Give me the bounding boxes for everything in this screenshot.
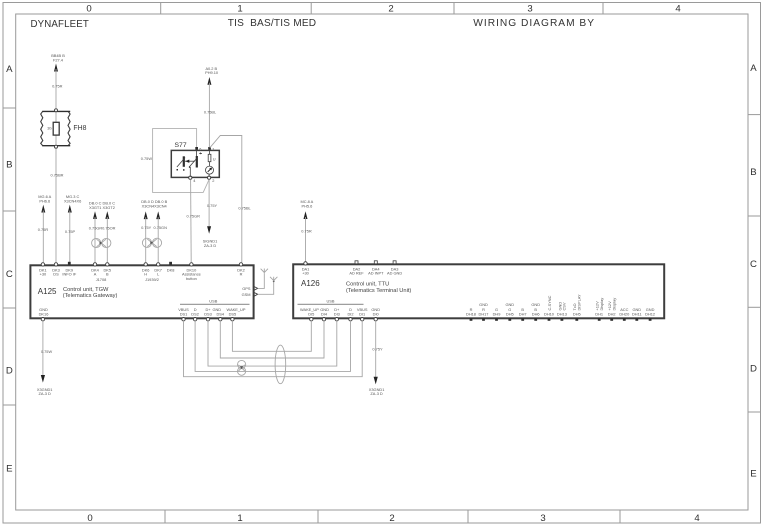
wire 0.75R feed to fuse [55,69,57,109]
svg-text:0: 0 [87,513,92,524]
pin DH7 A126 bottom [519,307,527,321]
svg-text:DH17: DH17 [479,312,489,317]
wire 0.75BL to S77 pin1 [208,83,210,148]
svg-text:2: 2 [389,513,394,524]
svg-text:X3GT1 X3GT2: X3GT1 X3GT2 [89,205,115,210]
pin DH10 A126 bottom [544,295,555,320]
svg-text:(Telematics Gateway): (Telematics Gateway) [63,293,118,299]
svg-text:0.75W: 0.75W [41,349,53,354]
svg-text:DI2: DI2 [347,312,353,317]
svg-text:ZA-3 D: ZA-3 D [370,391,383,396]
svg-text:GND: GND [632,307,641,312]
pin DH20 A126 bottom [619,307,630,321]
svg-text:WIRING DIAGRAM BY: WIRING DIAGRAM BY [473,18,595,29]
svg-text:DS2: DS2 [191,312,199,317]
arrow up X3CN4 left [144,211,148,219]
arrow down X3GND1 right [374,377,378,385]
svg-text:0.75BL: 0.75BL [204,109,217,114]
ground SIGND1 ZA-3 D [203,239,218,248]
pin DK1 A125 top [39,263,47,277]
svg-text:A: A [750,63,757,74]
svg-text:J1708: J1708 [96,277,107,282]
svg-text:USB: USB [209,299,217,304]
wire 0.75Y S77 pin2 to ground [208,180,210,231]
pin DH11 A126 bottom [632,307,642,321]
svg-text:DH2: DH2 [608,312,616,317]
arrow up MC.8A [304,211,308,219]
pin DK6 A125 top [142,263,150,277]
svg-text:DS1: DS1 [180,312,188,317]
pin DK3 A125 top [52,263,60,277]
lamp [206,166,214,174]
arrow up MG.6A [41,205,45,213]
pin DK8 A125 top [167,262,175,273]
svg-text:DH7: DH7 [519,312,527,317]
arrow up to F27.4 [54,64,58,72]
svg-text:DISPLAY: DISPLAY [576,294,581,311]
USB group label A125 [180,299,250,305]
svg-text:0.75GR: 0.75GR [187,214,201,219]
svg-text:DS: DS [53,272,59,277]
svg-text:GND: GND [531,302,540,307]
svg-text:AD INPT: AD INPT [368,271,384,276]
svg-text:0.75GR: 0.75GR [89,225,103,230]
antenna W2 (GSM) [258,277,278,295]
svg-text:0.75Y: 0.75Y [141,225,152,230]
svg-text:ZA-3 D: ZA-3 D [204,243,217,248]
svg-text:INFO IF: INFO IF [62,272,76,277]
switch contact [183,156,185,167]
svg-text:GND: GND [479,302,488,307]
svg-text:DH1: DH1 [595,312,603,317]
wire 0.75R to DA1 [305,217,307,262]
svg-text:DH13: DH13 [557,312,567,317]
svg-text:(Telematics Terminal Unit): (Telematics Terminal Unit) [346,288,411,294]
pin DK5 A125 top [104,263,112,277]
ground X3GND1 ZA-3 D [37,387,53,396]
svg-text:Control unit, TTU: Control unit, TTU [346,281,389,287]
svg-text:PH6.6: PH6.6 [39,198,50,203]
wire DS1 to DI1 (VBUS) [184,321,363,377]
pin GSM A125 [242,292,258,297]
svg-text:2: 2 [388,4,393,15]
pin DH13 A126 bottom [557,302,567,321]
pin GPS A125 [242,286,257,291]
svg-text:GND: GND [646,307,655,312]
svg-text:S77: S77 [175,142,187,149]
wire 0.75BL S77 pin1 to DK2 [210,136,242,263]
svg-text:B: B [106,272,109,277]
arrow up X3CN4 right [156,211,160,219]
svg-text:G: G [508,307,511,312]
svg-text:GND: GND [505,302,514,307]
pin DK16 GND A125 bottom [39,307,49,321]
pin DI1 A126 bottom [357,307,368,321]
svg-text:DI3: DI3 [334,312,340,317]
svg-text:DS5: DS5 [229,312,237,317]
pin DK7 A125 top [154,263,162,277]
svg-text:0.75R: 0.75R [52,83,63,88]
pin DK10 A125 top [182,263,201,277]
svg-text:0.75GN: 0.75GN [153,225,167,230]
arrow up X3GT1 [93,211,97,219]
wire DS5 to DI5 (WAKE_UP) [232,321,311,351]
svg-text:H: H [144,272,147,277]
svg-text:DI1: DI1 [359,312,365,317]
pin DK4 A125 top [91,263,99,277]
control unit A126 (Telematics Terminal Unit) [293,264,664,318]
svg-text:0.75BL: 0.75BL [238,206,251,211]
pin DS3 A125 bottom [204,307,212,321]
svg-text:0.75R: 0.75R [301,228,312,233]
svg-text:3: 3 [540,513,545,524]
pin DA3 A126 top [387,261,402,276]
arrow up X3GT2 [105,211,109,219]
wire 0.75W DK16 to ground [42,321,44,376]
fuse FH8 [41,109,87,148]
node MG.3 C X3CN4X6 [64,194,81,203]
svg-text:4: 4 [675,4,681,15]
svg-text:DI4: DI4 [321,312,328,317]
svg-text:DK16: DK16 [39,312,49,317]
svg-text:USB: USB [327,299,335,304]
node DB.0 D DB.0 B X3CN4 [141,199,167,208]
svg-text:A125: A125 [38,287,57,296]
antenna W1 (GPS) [258,269,268,289]
wire 0.75GR S77 pin4 to DK10 [190,180,193,263]
svg-text:PH9.10: PH9.10 [205,70,219,75]
pin DI2 A126 bottom [347,307,353,321]
svg-text:DH20: DH20 [619,312,630,317]
momentary arrow [200,152,202,154]
wire 0.75OR to DK5 [106,217,108,262]
svg-text:DH11: DH11 [632,312,642,317]
pin DS1 A125 bottom [178,307,189,321]
svg-text:+30: +30 [40,272,47,277]
pin DH12 A126 bottom [645,307,655,321]
svg-text:A126: A126 [301,279,320,288]
pin DK9 A125 top [62,262,76,277]
wire 0.75BR fuse to DK3 [55,149,57,263]
twisted pair symbol USB D+/D- [238,360,246,375]
pin DH18 A126 bottom [466,307,476,321]
pin DH6 A126 bottom [531,302,540,321]
svg-text:ZA-3 D: ZA-3 D [39,391,52,396]
svg-text:B: B [6,160,12,171]
svg-text:R: R [470,307,473,312]
svg-text:X3CN4X6: X3CN4X6 [64,198,81,203]
svg-text:0.75OR: 0.75OR [102,225,116,230]
switch S77 [171,142,219,183]
svg-text:3: 3 [527,4,532,15]
ground X3GND1 ZA-3 D right [369,387,385,396]
control unit A125 (Telematics Gateway) [30,265,253,318]
pin 4 [189,176,192,179]
arrow down X3GND1 [41,375,45,383]
pin DA1 A126 top [302,262,310,276]
svg-text:D: D [6,366,13,377]
svg-text:C: C [6,269,13,280]
svg-text:0.75Y: 0.75Y [207,203,218,208]
svg-text:J1939/2: J1939/2 [145,277,159,282]
node MG.6 A PH6.6 [38,194,51,203]
svg-text:DI0: DI0 [373,312,380,317]
wire DS4 to DI4 (GND) [220,321,324,358]
wire 0.75GN to DK7 [157,217,159,262]
wire DS3 to DI3 (D+) [208,321,337,366]
svg-text:U: U [213,157,216,162]
svg-text:D: D [750,364,757,375]
node DB.0 C X3GT1 X3GT2 [89,201,115,210]
svg-text:GPS: GPS [242,286,251,291]
svg-text:E: E [6,464,12,475]
pin DI3 A126 bottom [334,307,340,321]
svg-text:R: R [240,272,243,277]
svg-text:PH5.6: PH5.6 [301,204,312,209]
svg-text:CSV: CSV [562,302,567,310]
svg-text:A: A [94,272,97,277]
svg-text:0.75BR: 0.75BR [51,173,64,178]
svg-text:DH5: DH5 [506,312,514,317]
pin 2 [208,176,211,179]
svg-text:F27.4: F27.4 [53,57,64,62]
svg-text:GSM: GSM [242,292,251,297]
svg-text:E: E [750,469,756,480]
svg-text:DH9: DH9 [493,312,501,317]
node BB4B B F27.4 (feed reference) [51,53,65,62]
wire 0.75W loop S77 pin6 to pin2 [153,129,210,193]
arrow up MG.3C [68,205,72,213]
svg-text:6: 6 [199,146,201,151]
USB group label A126 [298,299,364,305]
svg-text:C-SYNC: C-SYNC [547,295,552,310]
svg-text:C: C [750,259,757,270]
pin DS2 A125 bottom [191,307,199,321]
svg-text:DH6: DH6 [532,312,540,317]
wire 0.75P to DK9 [69,211,71,264]
twisted pair symbol J1708 [92,238,111,247]
svg-text:0.75Y: 0.75Y [372,347,383,352]
pin DI5 A126 bottom [300,307,319,321]
pin DH17 A126 bottom [479,302,489,321]
cable bundle symbol [275,345,286,384]
svg-text:DH12: DH12 [645,312,655,317]
svg-text:0.75R: 0.75R [38,227,49,232]
svg-text:DI5: DI5 [308,312,314,317]
svg-text:B: B [534,307,537,312]
wire 0.75R to DK1 [42,211,44,263]
svg-text:R: R [482,307,485,312]
pin DH5 A126 bottom [572,294,581,321]
svg-text:1: 1 [237,4,242,15]
twisted pair symbol J1939 [142,238,161,247]
svg-text:0.75P: 0.75P [65,229,76,234]
arrow down SIGND1 [207,226,211,234]
svg-text:A: A [6,64,13,75]
pin DI0 A126 bottom [371,307,380,321]
svg-text:2: 2 [212,178,214,183]
pin 6 [195,147,198,150]
svg-text:AD GND: AD GND [387,271,402,276]
node MC.8 A PH5.6 [301,199,314,208]
pin DS5 A125 bottom [227,307,246,321]
svg-text:1: 1 [237,513,242,524]
svg-text:DH10: DH10 [544,312,555,317]
wire DS2 to DI2 (D-) [195,321,350,372]
svg-text:G: G [495,307,498,312]
pin DH5 A126 bottom [505,302,514,321]
pin DH1 A126 bottom [595,298,604,321]
svg-text:FH8: FH8 [73,125,86,132]
resistor U [209,150,211,155]
svg-text:X3CN4X3CN4: X3CN4X3CN4 [142,204,168,209]
svg-text:DH5: DH5 [573,312,581,317]
svg-text:0: 0 [86,4,91,15]
node A0.2 B PH9.10 [205,66,219,75]
pin DI4 A126 bottom [320,307,329,321]
svg-text:B: B [521,307,524,312]
wire 0.75Y DI0 to ground [375,321,377,377]
pin DK2 A125 top [237,263,245,277]
pin DS4 A125 bottom [212,307,224,321]
svg-text:3b: 3b [47,126,51,131]
wire 0.75Y to DK6 [145,217,147,262]
svg-text:AD REF: AD REF [349,271,364,276]
svg-text:DYNAFLEET: DYNAFLEET [31,19,89,30]
wire 0.75GR to DK4 [94,217,96,262]
pin DH2 A126 bottom [607,298,616,321]
arrow up A0.2B [207,77,211,85]
svg-text:4: 4 [694,513,700,524]
svg-text:DK8: DK8 [167,267,175,272]
svg-text:0.75W: 0.75W [141,156,153,161]
svg-text:button: button [186,276,197,281]
svg-text:1: 1 [212,146,214,151]
svg-text:TIS BAS/TIS MED: TIS BAS/TIS MED [228,18,316,29]
svg-text:DS3: DS3 [204,312,212,317]
svg-text:B: B [750,167,756,178]
pin DH9 A126 bottom [493,307,501,321]
svg-text:DS4: DS4 [217,312,225,317]
svg-text:Display: Display [611,298,616,311]
svg-text:+30: +30 [302,271,309,276]
svg-text:DH18: DH18 [466,312,476,317]
svg-text:Display: Display [599,298,604,311]
svg-text:ACC: ACC [620,307,628,312]
pin 1 [208,147,211,150]
pin DA2 A126 top [349,261,364,276]
pin DA4 A126 top [368,261,384,276]
